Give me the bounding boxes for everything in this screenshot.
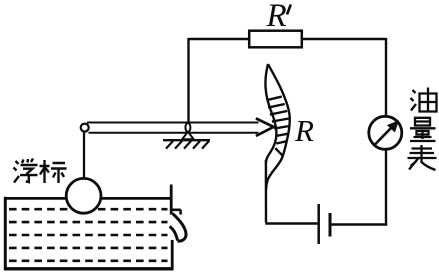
link rod float to lever (83, 132, 85, 180)
pin joint circle (lever left end) (81, 124, 89, 132)
wire right vertical upper (385, 38, 387, 115)
wire top horizontal (189, 38, 387, 40)
wire right vertical lower (385, 149, 387, 226)
ground line (fixed support) (163, 139, 210, 141)
meter needle arrowhead (387, 120, 399, 132)
tank left wall (4, 197, 7, 270)
rheostat R vertical tail (265, 160, 268, 223)
label 浮标 (float) (14, 159, 67, 184)
pivot support triangle (182, 132, 194, 139)
label R prime tick (287, 5, 291, 15)
svg-text:R: R (294, 113, 314, 148)
meter (oil gauge) circle (369, 116, 402, 149)
rheostat rung 4 (272, 119, 289, 122)
rheostat rung 5 (274, 126, 289, 129)
wire left vertical (to wiper pivot) (187, 38, 189, 124)
svg-text:R: R (266, 0, 287, 34)
tank right wall lower (171, 240, 174, 270)
float ball (66, 178, 101, 213)
ground hatching (166, 141, 209, 149)
lever arm top line (87, 122, 259, 124)
liquid dashes row 4 (9, 247, 168, 250)
wiper arrowhead (256, 118, 274, 135)
liquid dashes row 5 (9, 259, 168, 262)
rheostat rung 8 (275, 148, 283, 156)
pivot bearing ellipse (185, 123, 190, 132)
rheostat rung 6 (276, 134, 289, 136)
meter needle (374, 127, 393, 146)
wire bottom left (rheostat to battery) (267, 223, 318, 224)
resistor R' (249, 31, 302, 48)
label 油量表 (oil gauge) (408, 88, 437, 171)
tank right wall upper (170, 185, 173, 215)
lever arm bottom line (89, 132, 259, 134)
rheostat rung 7 (276, 141, 287, 143)
rheostat rung 1 (267, 97, 282, 101)
tank spout stub (171, 210, 181, 215)
liquid dashes row 2 (9, 221, 168, 224)
tank bottom (4, 267, 174, 270)
wire bottom right (battery to right leg) (332, 223, 388, 225)
battery plate long (+) (317, 204, 320, 244)
tank spout outer curve (173, 214, 187, 242)
liquid dashes row 3 (9, 234, 168, 237)
liquid dashes row 1 (9, 208, 168, 211)
rheostat rung 2 (268, 104, 285, 108)
tank spout inner curve (170, 227, 178, 241)
rheostat R inner arc (265, 64, 276, 163)
liquid surface line (7, 197, 171, 200)
battery plate short (-) (329, 213, 332, 237)
rheostat R outer arc (266, 64, 290, 190)
rheostat rung 3 (270, 111, 287, 115)
